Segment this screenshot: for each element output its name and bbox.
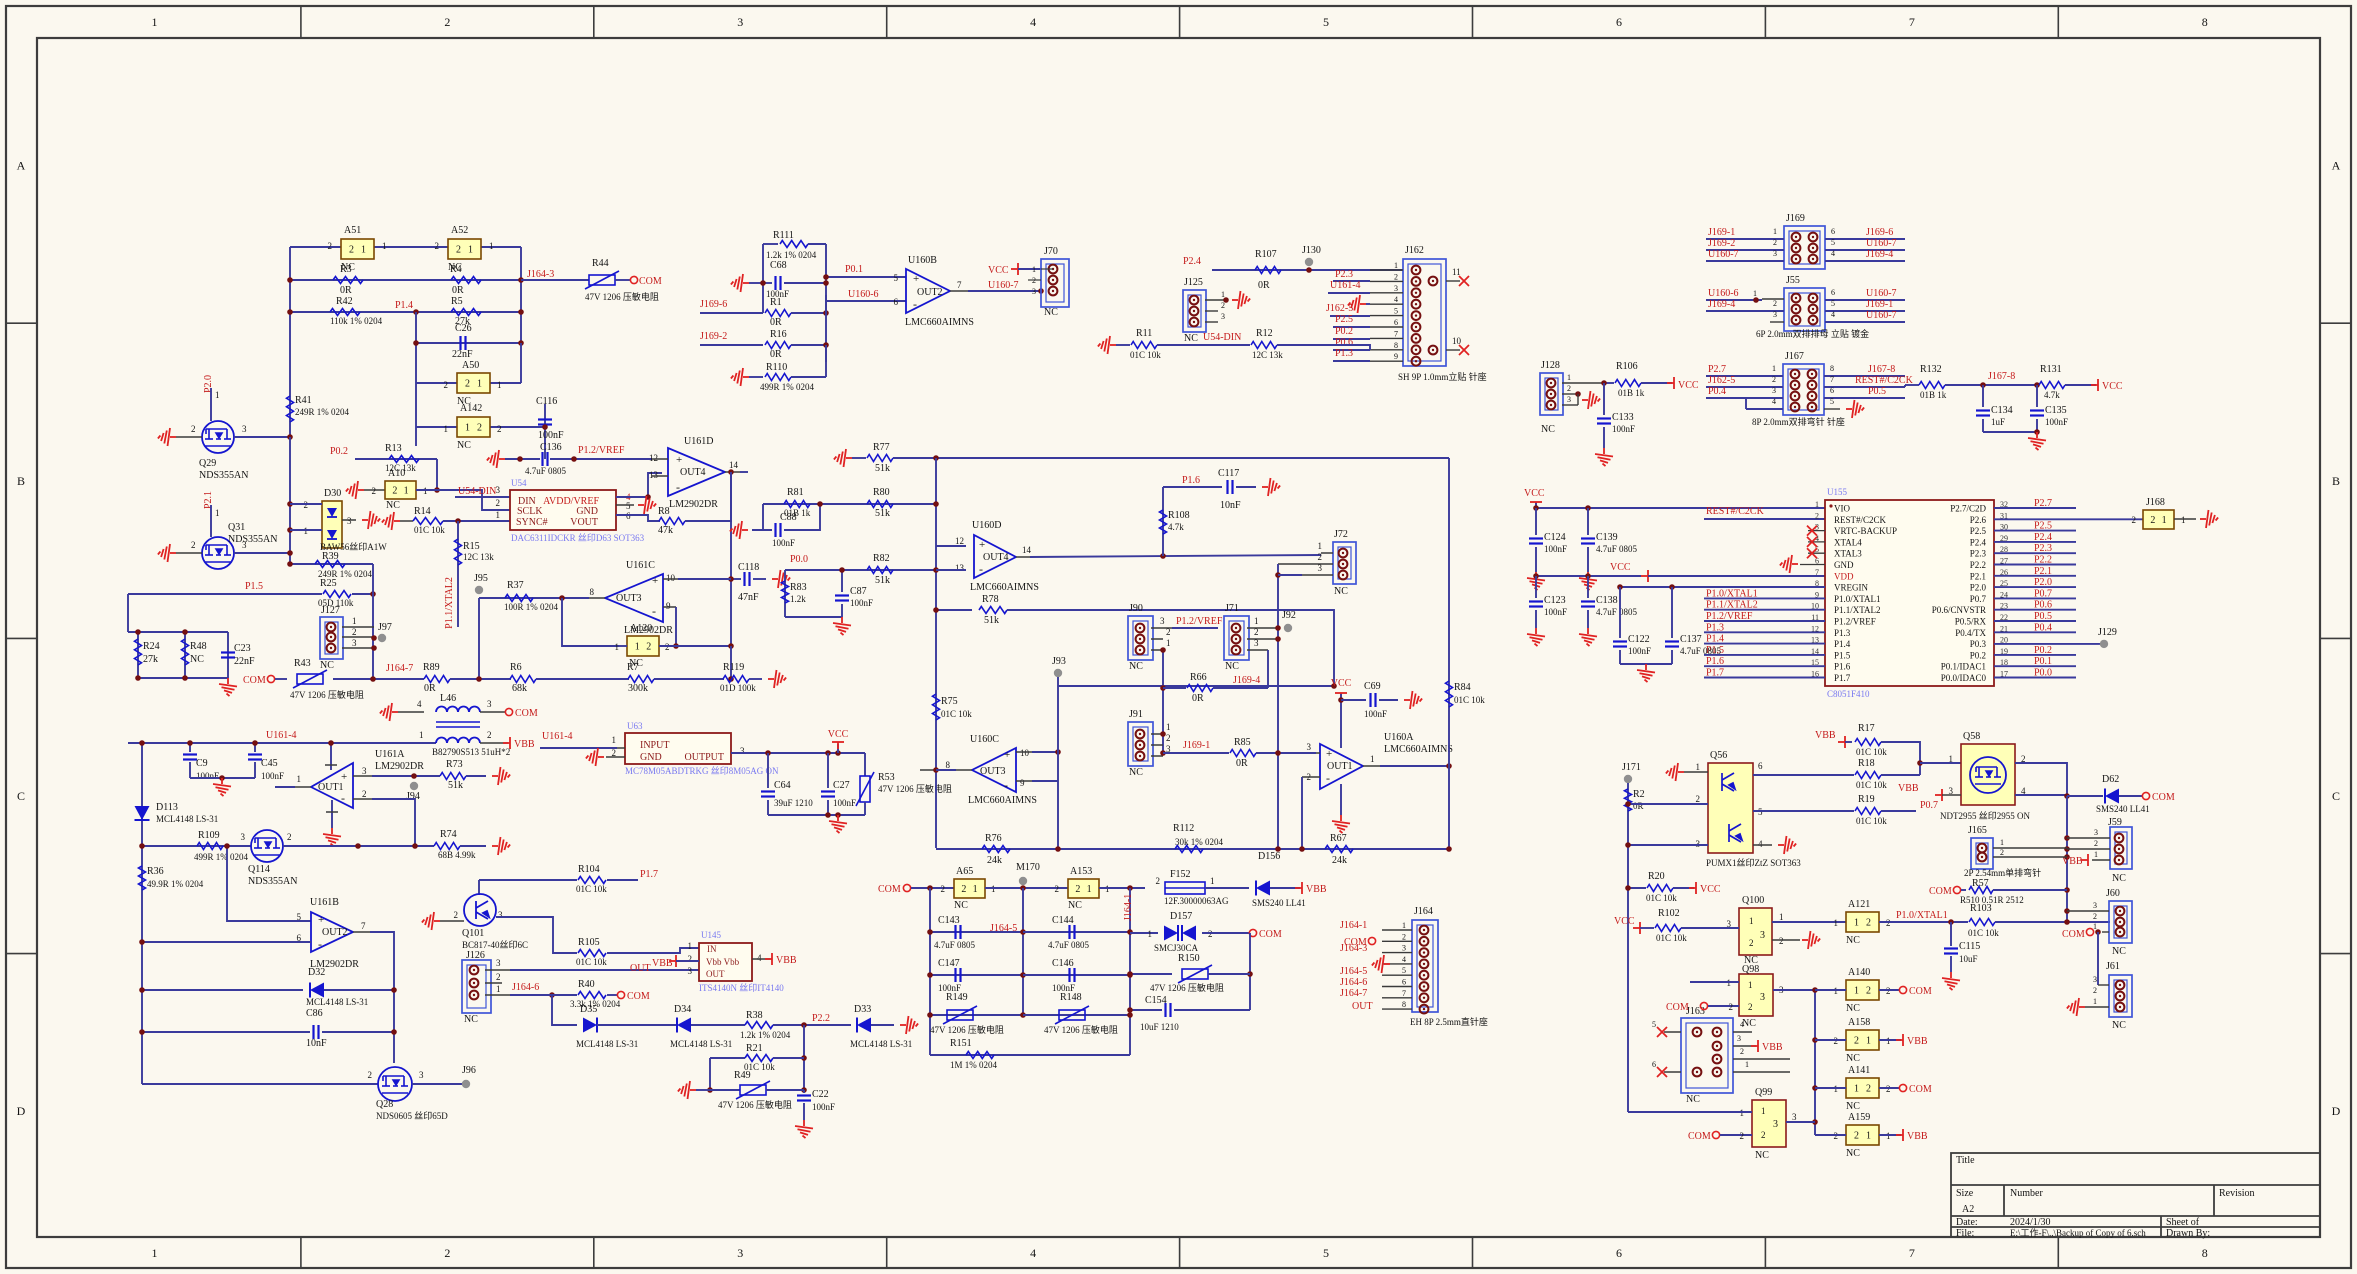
svg-text:Q114: Q114: [248, 864, 270, 875]
svg-text:10uF 1210: 10uF 1210: [1140, 1022, 1179, 1032]
svg-text:J169: J169: [1786, 213, 1805, 224]
svg-text:A140: A140: [1848, 967, 1870, 978]
svg-text:1: 1: [151, 15, 157, 29]
junction: [765, 750, 771, 756]
svg-text:NDT2955 丝印2955 ON: NDT2955 丝印2955 ON: [1940, 810, 2030, 821]
wire: [1270, 887, 1300, 889]
capacitor C154 row: [1130, 1009, 1162, 1011]
svg-text:U54: U54: [511, 478, 527, 488]
svg-text:B: B: [2332, 474, 2340, 488]
svg-text:P2.7: P2.7: [1708, 364, 1726, 375]
svg-text:VREGIN: VREGIN: [1834, 583, 1868, 593]
svg-text:R24: R24: [143, 641, 160, 652]
port COM: [1700, 1002, 1707, 1009]
svg-text:R89: R89: [423, 662, 440, 673]
svg-text:7: 7: [957, 280, 962, 290]
svg-text:-: -: [1326, 771, 1330, 785]
capacitor C23: [227, 632, 229, 678]
port COM: [1712, 1131, 1719, 1138]
svg-text:Q28: Q28: [376, 1099, 393, 1110]
svg-text:2: 2: [1815, 511, 1819, 520]
wire: [1202, 932, 1250, 934]
diode D33: [857, 1018, 871, 1033]
capacitor C134: [1982, 385, 1984, 407]
wire: [762, 504, 764, 530]
svg-text:J126: J126: [466, 950, 485, 961]
svg-text:R17: R17: [1858, 723, 1875, 734]
varistor R53: [864, 753, 866, 776]
port COM pin2: [1368, 937, 1375, 944]
ground: [2028, 432, 2046, 450]
svg-text:R110: R110: [766, 362, 787, 373]
svg-text:R73: R73: [446, 759, 463, 770]
svg-text:A159: A159: [1848, 1112, 1870, 1123]
svg-text:C134: C134: [1991, 405, 2013, 416]
svg-text:P0.7: P0.7: [1920, 800, 1938, 811]
wire: [1341, 699, 1366, 701]
svg-text:51k: 51k: [875, 508, 890, 519]
svg-text:MCL4148 LS-31: MCL4148 LS-31: [850, 1039, 912, 1049]
svg-text:DAC6311IDCKR 丝印D63 SOT363: DAC6311IDCKR 丝印D63 SOT363: [511, 532, 645, 543]
svg-text:3: 3: [1254, 638, 1259, 648]
svg-text:3: 3: [362, 766, 367, 776]
svg-text:OUT1: OUT1: [1327, 761, 1353, 772]
svg-text:2: 2: [1773, 238, 1777, 247]
varistor R148: [1023, 1014, 1130, 1016]
svg-text:1: 1: [477, 379, 482, 390]
ground: [1637, 664, 1655, 682]
svg-text:3: 3: [1160, 616, 1165, 626]
svg-text:P0.2: P0.2: [1970, 650, 1986, 660]
svg-text:0R: 0R: [452, 285, 464, 296]
ground: [1942, 972, 1960, 990]
svg-text:R40: R40: [578, 979, 595, 990]
wire R39 row: [290, 563, 373, 565]
svg-text:8: 8: [2202, 1246, 2208, 1260]
ground: [380, 703, 398, 721]
component A120: [627, 636, 659, 656]
svg-text:8: 8: [590, 587, 595, 597]
svg-text:D34: D34: [674, 1004, 691, 1015]
svg-text:2: 2: [372, 486, 377, 496]
wire: [1879, 921, 1905, 923]
svg-text:0R: 0R: [1236, 758, 1248, 769]
resistor R21: [745, 1055, 773, 1062]
resistor R111: [763, 243, 778, 245]
svg-text:J96: J96: [462, 1065, 476, 1076]
svg-text:1: 1: [1949, 754, 1954, 764]
svg-text:9: 9: [1020, 778, 1025, 788]
svg-text:P2.3: P2.3: [1970, 549, 1987, 559]
ground pin4: [1753, 844, 1772, 846]
svg-text:R104: R104: [578, 864, 600, 875]
svg-text:100R 1% 0204: 100R 1% 0204: [504, 602, 559, 612]
svg-text:A142: A142: [460, 403, 482, 414]
svg-text:300k: 300k: [628, 683, 648, 694]
wire: [544, 404, 546, 459]
junction: [370, 591, 376, 597]
wire V+: [330, 743, 332, 770]
svg-text:2: 2: [477, 423, 482, 434]
svg-text:R112: R112: [1173, 823, 1194, 834]
transistor Q29: [202, 421, 234, 453]
svg-text:+: +: [913, 273, 919, 285]
svg-text:Title: Title: [1956, 1155, 1975, 1166]
svg-text:COM: COM: [1909, 1084, 1932, 1095]
svg-text:C139: C139: [1596, 532, 1618, 543]
svg-text:3: 3: [1772, 386, 1776, 395]
svg-text:R8: R8: [658, 506, 670, 517]
svg-text:OUTPUT: OUTPUT: [685, 752, 724, 763]
wire: [762, 244, 764, 313]
svg-text:1: 1: [1834, 918, 1839, 928]
svg-text:1: 1: [361, 245, 366, 256]
svg-text:2: 2: [1761, 1130, 1766, 1140]
ic U155: [1825, 500, 1994, 686]
svg-text:U160-7: U160-7: [1866, 238, 1897, 249]
svg-text:J164-6: J164-6: [1340, 977, 1367, 988]
svg-text:OUT4: OUT4: [983, 552, 1009, 563]
svg-text:2: 2: [496, 972, 501, 982]
svg-text:P2.5: P2.5: [1970, 526, 1987, 536]
svg-text:8: 8: [1402, 1000, 1406, 1009]
svg-text:VCC: VCC: [1678, 380, 1699, 391]
svg-text:2: 2: [1402, 932, 1406, 941]
junction: [413, 340, 419, 346]
ground: [492, 767, 510, 785]
wire: [826, 276, 906, 278]
svg-text:J61: J61: [2106, 961, 2120, 972]
resistor R78: [979, 607, 1007, 614]
wire: [234, 436, 290, 438]
svg-text:3: 3: [1394, 284, 1398, 293]
wire OUT4 row: [1016, 556, 1030, 558]
wire: [826, 300, 906, 302]
svg-text:PUMX1丝印ZtZ SOT363: PUMX1丝印ZtZ SOT363: [1706, 857, 1801, 868]
svg-text:J129: J129: [2098, 627, 2117, 638]
svg-text:NC: NC: [1129, 661, 1143, 672]
wire: [372, 564, 374, 679]
svg-text:R41: R41: [295, 395, 312, 406]
svg-text:VCC: VCC: [828, 729, 849, 740]
svg-text:1: 1: [1772, 364, 1776, 373]
svg-text:COM: COM: [627, 991, 650, 1002]
svg-text:J169-1: J169-1: [1708, 227, 1735, 238]
wire: [353, 931, 370, 933]
svg-text:1: 1: [1166, 638, 1171, 648]
svg-text:3: 3: [1737, 1034, 1741, 1043]
svg-text:COM: COM: [878, 884, 901, 895]
connector J125: [1183, 290, 1206, 332]
svg-text:1: 1: [688, 941, 693, 951]
wire: [1983, 431, 2037, 433]
port COM: [267, 675, 274, 682]
connector J59: [2110, 827, 2132, 869]
resistor R106: [1615, 380, 1641, 387]
wire: [785, 616, 842, 618]
svg-text:NC: NC: [2112, 946, 2126, 957]
wire C86 row: [142, 1031, 310, 1033]
svg-text:D33: D33: [854, 1004, 871, 1015]
connector J163: [1681, 1018, 1733, 1093]
wire: [1690, 981, 1739, 983]
svg-text:3: 3: [496, 485, 501, 495]
component A141: [1846, 1078, 1879, 1098]
resistor R119: [723, 676, 749, 683]
svg-text:R66: R66: [1190, 672, 1207, 683]
svg-text:1: 1: [1748, 980, 1753, 990]
svg-text:6: 6: [1616, 1246, 1622, 1260]
svg-text:01B 1k: 01B 1k: [1920, 390, 1947, 400]
svg-text:01C 10k: 01C 10k: [1968, 928, 1999, 938]
svg-text:47V 1206 压敏电阻: 47V 1206 压敏电阻: [585, 291, 659, 302]
wire: [496, 917, 577, 953]
wire: [1212, 269, 1403, 271]
node J130: [1305, 258, 1313, 266]
svg-text:U161-4: U161-4: [542, 731, 573, 742]
svg-text:5: 5: [1323, 15, 1329, 29]
ground: [346, 481, 364, 499]
svg-text:NDS0605 丝印65D: NDS0605 丝印65D: [376, 1110, 448, 1121]
wire: [752, 958, 770, 960]
svg-text:14: 14: [1022, 545, 1032, 555]
svg-text:P1.6: P1.6: [1182, 475, 1200, 486]
svg-text:3: 3: [1773, 1119, 1778, 1130]
resistor R11: [1131, 342, 1157, 349]
junction: [559, 595, 565, 601]
svg-text:1: 1: [497, 380, 502, 390]
svg-text:A120: A120: [630, 623, 652, 634]
svg-text:R15: R15: [463, 541, 480, 552]
svg-text:BAW56丝印A1W: BAW56丝印A1W: [320, 541, 387, 552]
wire: [355, 458, 437, 460]
port COM: [1899, 986, 1906, 993]
svg-text:NC: NC: [1846, 1148, 1860, 1159]
transistor Q100: [1739, 908, 1772, 955]
ground Q100 pin2: [1772, 939, 1800, 941]
svg-text:0R: 0R: [770, 349, 782, 360]
svg-text:27k: 27k: [143, 654, 158, 665]
svg-text:NC: NC: [1044, 307, 1058, 318]
svg-text:OUT2: OUT2: [322, 927, 348, 938]
capacitor C22: [803, 1090, 805, 1093]
svg-text:2: 2: [1740, 1131, 1745, 1141]
wire: [2119, 795, 2142, 797]
svg-text:2: 2: [1729, 1002, 1734, 1012]
wire: [2067, 795, 2103, 797]
svg-text:2: 2: [1773, 299, 1777, 308]
svg-text:10nF: 10nF: [306, 1038, 327, 1049]
svg-text:2: 2: [2093, 912, 2097, 921]
wire: [1277, 564, 1279, 849]
svg-text:1: 1: [991, 884, 996, 894]
wire: [749, 678, 762, 680]
svg-text:+: +: [341, 771, 347, 783]
svg-text:U54-DIN: U54-DIN: [1203, 332, 1241, 343]
resistor R8: [659, 518, 685, 525]
svg-text:P0.1: P0.1: [845, 264, 863, 275]
port COM: [2086, 928, 2093, 935]
resistor R73: [440, 773, 466, 780]
svg-text:NC: NC: [320, 660, 334, 671]
wire: [616, 473, 662, 497]
capacitor C45: [254, 743, 256, 752]
wire: [1316, 752, 1320, 754]
svg-text:3: 3: [1696, 839, 1701, 849]
wire COM row: [333, 678, 424, 680]
svg-text:R111: R111: [773, 230, 794, 241]
svg-text:2: 2: [1221, 301, 1225, 310]
svg-text:VIO: VIO: [1834, 504, 1850, 514]
ground: [616, 504, 634, 506]
svg-text:8: 8: [1830, 364, 1834, 373]
svg-text:P1.0/XTAL1: P1.0/XTAL1: [1896, 910, 1948, 921]
svg-text:U161-4: U161-4: [266, 730, 297, 741]
wire: [589, 597, 605, 599]
svg-text:C117: C117: [1218, 468, 1239, 479]
svg-text:3: 3: [688, 966, 693, 976]
port COM: [505, 708, 512, 715]
svg-text:2: 2: [1055, 884, 1060, 894]
svg-text:2: 2: [1740, 1047, 1744, 1056]
svg-text:2: 2: [961, 884, 966, 895]
resistor R19: [1855, 808, 1881, 815]
svg-text:REST#/C2CK: REST#/C2CK: [1834, 515, 1887, 525]
ground: [1232, 291, 1250, 309]
svg-text:3: 3: [737, 15, 743, 29]
svg-text:NC: NC: [1225, 661, 1239, 672]
svg-text:13: 13: [955, 563, 965, 573]
svg-text:D32: D32: [308, 967, 325, 978]
ground: [731, 274, 749, 292]
svg-text:R12: R12: [1256, 328, 1273, 339]
svg-text:R43: R43: [294, 658, 311, 669]
svg-text:2: 2: [328, 241, 333, 251]
svg-text:-: -: [1004, 778, 1008, 792]
connector J169: [1784, 226, 1825, 269]
svg-text:C133: C133: [1612, 412, 1634, 423]
svg-text:SYNC#: SYNC#: [516, 517, 548, 528]
svg-text:1: 1: [1394, 261, 1398, 270]
wire: [415, 312, 417, 446]
svg-text:1: 1: [635, 642, 640, 653]
wire: [615, 279, 631, 281]
wire J171 rail: [1627, 783, 1629, 1112]
wire R66 row: [1163, 687, 1186, 689]
junction: [287, 501, 293, 507]
svg-text:2: 2: [1772, 375, 1776, 384]
svg-text:C: C: [2332, 789, 2340, 803]
wire: [450, 678, 511, 680]
svg-text:U160D: U160D: [972, 520, 1001, 531]
capacitor C139: [1587, 508, 1589, 535]
svg-text:R105: R105: [578, 937, 600, 948]
op-amp U161B: [311, 912, 353, 952]
svg-text:1: 1: [2093, 997, 2097, 1006]
svg-text:7: 7: [1402, 989, 1406, 998]
svg-text:01C 10k: 01C 10k: [576, 884, 607, 894]
svg-text:P2.5: P2.5: [1335, 314, 1353, 325]
svg-text:B: B: [17, 474, 25, 488]
svg-text:Q58: Q58: [1963, 731, 1980, 742]
wire: [950, 290, 968, 292]
svg-text:2: 2: [1208, 929, 1213, 939]
resistor R109: [197, 843, 223, 850]
svg-text:1: 1: [444, 424, 449, 434]
node J95: [475, 586, 483, 594]
connector J60: [2109, 901, 2132, 943]
wire U161-4 rail: [128, 742, 436, 744]
component A51: [341, 239, 374, 259]
wire A rail: [1814, 990, 1816, 1135]
junction: [728, 469, 734, 475]
svg-text:VCC: VCC: [1331, 678, 1352, 689]
ground: [678, 1081, 696, 1099]
svg-text:100nF: 100nF: [1544, 607, 1567, 617]
svg-text:C22: C22: [812, 1089, 829, 1100]
svg-text:1: 1: [2094, 850, 2098, 859]
svg-text:P0.6/CNVSTR: P0.6/CNVSTR: [1932, 605, 1986, 615]
wire bottom row: [936, 848, 1449, 850]
ic U145: [699, 943, 752, 981]
ground: [1579, 572, 1597, 590]
wire: [803, 1025, 805, 1090]
svg-text:J167-8: J167-8: [1988, 371, 2015, 382]
wire: [791, 344, 826, 346]
svg-text:2: 2: [444, 15, 450, 29]
svg-text:2: 2: [392, 486, 397, 497]
wire: [1302, 776, 1320, 778]
ground pin6: [1800, 564, 1825, 566]
svg-text:VCC: VCC: [2102, 381, 2123, 392]
op-amp U161C (mirrored): [605, 574, 663, 622]
svg-text:24k: 24k: [987, 855, 1002, 866]
svg-text:1: 1: [496, 510, 501, 520]
svg-text:OUT: OUT: [1352, 1001, 1373, 1012]
wire: [740, 471, 748, 473]
power VBB: [1751, 1040, 1758, 1052]
svg-text:R151: R151: [950, 1038, 972, 1049]
svg-text:6: 6: [1831, 227, 1835, 236]
port COM: [2142, 792, 2149, 799]
resistor R131: [2039, 382, 2065, 389]
svg-text:3: 3: [352, 638, 357, 648]
svg-text:R108: R108: [1168, 510, 1190, 521]
wire: [466, 775, 486, 777]
svg-text:+: +: [1004, 749, 1010, 761]
svg-text:VBB: VBB: [652, 958, 673, 969]
svg-text:GND: GND: [640, 752, 662, 763]
svg-text:NC: NC: [1541, 424, 1555, 435]
svg-text:D: D: [17, 1104, 26, 1118]
svg-text:J72: J72: [1334, 529, 1348, 540]
svg-text:1: 1: [404, 486, 409, 497]
svg-text:J164-3: J164-3: [527, 269, 554, 280]
svg-text:NC: NC: [1129, 767, 1143, 778]
transistor Q101 (BJT): [464, 894, 496, 926]
svg-text:R84: R84: [1454, 682, 1471, 693]
wire: [1129, 888, 1131, 1055]
capacitor C26: [459, 336, 461, 350]
wire: [652, 458, 668, 460]
svg-text:R11: R11: [1136, 328, 1152, 339]
svg-text:24k: 24k: [1332, 855, 1347, 866]
svg-text:Date:: Date:: [1956, 1217, 1978, 1228]
capacitor C64: [767, 753, 769, 788]
svg-text:R85: R85: [1234, 737, 1251, 748]
wire: [791, 312, 826, 314]
svg-text:3: 3: [347, 516, 352, 526]
